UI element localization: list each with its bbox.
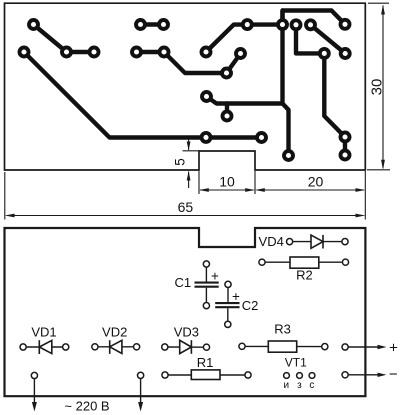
svg-text:з: з — [297, 380, 302, 391]
svg-text:+: + — [232, 289, 240, 304]
svg-text:VT1: VT1 — [285, 356, 307, 370]
svg-text:VD2: VD2 — [102, 324, 127, 339]
svg-text:+: + — [389, 339, 398, 356]
svg-text:VD1: VD1 — [31, 324, 56, 339]
svg-text:~ 220 В: ~ 220 В — [64, 399, 109, 414]
svg-text:R1: R1 — [197, 355, 214, 370]
svg-text:20: 20 — [308, 174, 324, 190]
svg-text:−: − — [389, 366, 398, 383]
svg-text:10: 10 — [219, 174, 235, 190]
svg-text:с: с — [309, 380, 314, 391]
svg-text:R2: R2 — [296, 268, 313, 283]
svg-text:VD4: VD4 — [259, 234, 284, 249]
svg-text:C1: C1 — [174, 275, 191, 290]
svg-text:30: 30 — [369, 79, 386, 96]
svg-text:65: 65 — [178, 199, 194, 215]
svg-text:5: 5 — [173, 158, 188, 166]
svg-text:R3: R3 — [274, 321, 291, 336]
svg-text:+: + — [211, 268, 219, 283]
svg-text:VD3: VD3 — [174, 324, 199, 339]
svg-text:и: и — [284, 380, 290, 391]
svg-text:C2: C2 — [242, 298, 259, 313]
